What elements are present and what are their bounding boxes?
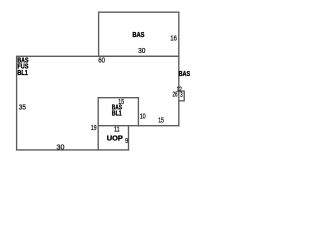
- svg-text:9: 9: [125, 138, 128, 145]
- svg-text:26: 26: [173, 91, 178, 98]
- svg-text:30: 30: [138, 48, 145, 55]
- main body right edge (26): [178, 56, 180, 125]
- top rectangle outline (BAS 30x16): [99, 12, 179, 56]
- svg-text:BL1: BL1: [17, 68, 28, 77]
- BAS/BL1 box right edge (10): [137, 98, 139, 126]
- svg-text:UOP: UOP: [107, 134, 123, 143]
- right bump rectangle (3x12): [179, 91, 184, 101]
- svg-text:30: 30: [57, 144, 65, 151]
- main body left edge (35): [16, 56, 18, 150]
- svg-text:BL1: BL1: [112, 109, 122, 118]
- svg-text:35: 35: [19, 105, 26, 112]
- svg-text:3: 3: [180, 92, 182, 99]
- svg-text:10: 10: [140, 113, 146, 120]
- svg-text:16: 16: [170, 36, 177, 43]
- BAS/BL1 box top edge (15): [98, 97, 138, 99]
- UOP box right edge (9): [128, 126, 130, 150]
- svg-text:BAS: BAS: [132, 30, 144, 39]
- svg-text:BAS: BAS: [179, 69, 191, 78]
- svg-text:11: 11: [114, 126, 120, 133]
- inner vertical x=98.2 (19): [97, 98, 99, 150]
- main body top edge (60): [17, 55, 179, 57]
- step line y=125.7 (15): [98, 125, 179, 127]
- svg-text:15: 15: [158, 118, 164, 125]
- main body bottom edge (30): [17, 149, 129, 151]
- svg-text:60: 60: [98, 58, 105, 65]
- svg-text:19: 19: [91, 125, 97, 132]
